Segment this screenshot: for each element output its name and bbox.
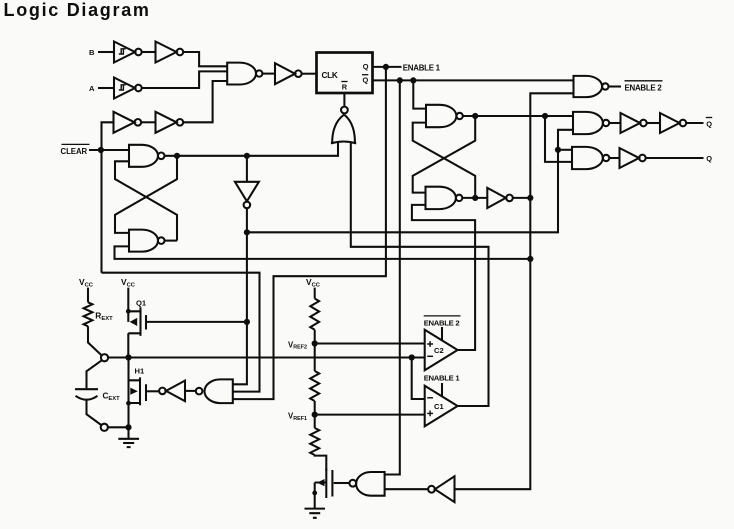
svg-text:ENABLE 2: ENABLE 2 <box>424 318 460 327</box>
node latch-A output junction <box>174 153 180 159</box>
pin C1 plus <box>427 411 433 417</box>
node timing junction at comparator column <box>409 354 415 360</box>
flip-flop U1 box <box>317 53 373 94</box>
wire A to trigger NAND input2 <box>142 71 228 88</box>
node latch-C output junction <box>472 113 478 119</box>
wire inverter input from pulldown NAND <box>185 390 196 392</box>
wire CLEAR input to latch <box>89 149 129 151</box>
wire ENABLE1/Q routed to pulldown NAND input3 <box>233 67 386 399</box>
inverter Qbar chain first <box>621 113 641 133</box>
transistor Q1 (PMOS) <box>128 288 146 358</box>
wire A input <box>98 87 114 89</box>
svg-text:Q: Q <box>363 76 369 85</box>
wire Qbar output bus <box>373 79 574 81</box>
wire latch-B lower input long feedback <box>115 246 531 259</box>
NAND Qbar output gate <box>573 112 603 134</box>
node down-inverter tap junction <box>244 153 250 159</box>
wire Cext bottom plate connection <box>87 400 102 425</box>
wire VCC to R1 <box>314 288 316 299</box>
wire latch-C output to Qbar-NAND <box>463 115 573 117</box>
wire latch-D output to inverter <box>462 197 487 199</box>
transistor H1 (NMOS) <box>129 358 147 428</box>
capacitor Cext <box>75 389 98 400</box>
pin C2 minus <box>427 355 433 357</box>
wire latch cross-coupling B-upper-input from latch-A output <box>115 156 177 233</box>
inverter after latch-D <box>487 188 506 208</box>
svg-text:A: A <box>89 84 95 93</box>
NAND latch-D bottom gate (right latch) <box>426 187 456 209</box>
wire latch-A output to NOR input <box>165 141 339 155</box>
wire latch-B output stub <box>165 240 178 242</box>
wire CLEAR vertical riser to inverter chain <box>102 122 114 272</box>
wire Q chain long to output label <box>646 157 704 159</box>
wire VREF1 to C1 plus input <box>315 414 425 416</box>
wire C1 output to NOR input <box>351 141 489 406</box>
node down-inverter output junction <box>244 229 250 235</box>
wire CLEAR chain stage2 <box>141 121 155 123</box>
wire timing node bus to comparators <box>108 356 425 358</box>
wire down-inverter output long vertical <box>233 156 247 384</box>
wire latch cross-coupling A-lower-input from latch-B output <box>115 161 177 240</box>
node x558 junction <box>555 147 561 153</box>
wire Q output to ENABLE 1 label <box>373 66 402 68</box>
wire VCC to Rext <box>87 288 89 303</box>
node y116 junction at x545 <box>542 113 548 119</box>
wire VREF2 to C2 plus input <box>315 342 425 344</box>
node VREF1 junction <box>312 412 318 418</box>
node x530 junction at y259 <box>527 256 533 262</box>
svg-text:Logic Diagram: Logic Diagram <box>4 0 151 20</box>
resistor Rext <box>84 302 93 326</box>
NAND latch-B bottom gate <box>129 230 158 252</box>
node Q1 gate tap junction <box>244 319 250 325</box>
comparator C1 <box>425 386 458 427</box>
wire discharge NAND input2 to inverter <box>385 488 428 490</box>
svg-text:ENABLE 1: ENABLE 1 <box>424 374 461 383</box>
wire Cext top plate connection <box>87 360 102 388</box>
wire B stage2 <box>142 51 156 53</box>
wire inverter output to x530 net <box>513 197 531 199</box>
wire H1 gate stub <box>147 390 160 392</box>
wire C2 enable stub <box>441 327 443 340</box>
wire discharge gate stub <box>334 482 350 484</box>
inverter B (second) <box>156 42 177 63</box>
wire CLEAR chain to trigger NAND input3 <box>183 81 227 122</box>
svg-text:Q: Q <box>706 120 712 129</box>
wire Q-NAND to inverter <box>609 157 619 159</box>
pin C2 plus <box>427 341 433 347</box>
inverter Q chain <box>620 148 640 168</box>
resistor divider R3 <box>310 428 319 455</box>
inverter H1 gate driver (points left) <box>159 388 166 395</box>
svg-text:Q: Q <box>706 154 712 163</box>
node Q junction <box>383 64 389 70</box>
inverter CLEAR chain second <box>156 112 177 133</box>
schmitt inverter A <box>114 78 135 99</box>
wire latch cross-coupling C-lower-input from latch-D output <box>413 123 476 198</box>
wire Rext to Rext/Cext pin <box>88 326 102 355</box>
NAND discharge driver (points left) <box>349 480 356 487</box>
wire Qbar to latch-C input1 <box>413 80 426 108</box>
trigger NAND gate (3-input) <box>227 63 256 85</box>
resistor divider R1 <box>310 299 319 330</box>
inverter pointing down (latch-A output) <box>235 182 259 202</box>
node CLEAR junction <box>98 147 104 153</box>
wire flip-flop Rbar stub <box>343 94 345 107</box>
inverter clock driver <box>275 63 295 84</box>
wire R2 to R3 <box>314 401 316 428</box>
svg-text:CLK: CLK <box>322 71 338 80</box>
wire B input <box>98 51 114 53</box>
wire y116 tap down to Q-NAND input2 <box>545 116 572 162</box>
wire Qbar long vertical to discharge NAND input1 <box>385 80 400 474</box>
node Qbar junction 1 <box>397 77 403 83</box>
NAND ENABLE2 output gate <box>574 76 603 97</box>
wire Qbar chain to output label <box>686 122 703 124</box>
wire Q1 gate to inverted-latch net <box>146 321 247 323</box>
svg-text:ENABLE 2: ENABLE 2 <box>625 84 663 93</box>
svg-text:ENABLE 1: ENABLE 1 <box>403 64 441 73</box>
wire Qbar-NAND to inverter1 <box>609 122 620 124</box>
svg-text:C2: C2 <box>434 346 444 355</box>
schmitt inverter B (first) <box>114 42 135 63</box>
NOR gate reset driver (points up) <box>341 107 348 114</box>
wire R1 to R2 <box>314 330 316 371</box>
ground (Cext/H1) <box>118 427 139 447</box>
wire C2 output to latch-D lower input <box>412 205 475 350</box>
node timing junction at Q1/H1 drain <box>125 354 131 360</box>
svg-text:Q1: Q1 <box>136 299 147 308</box>
svg-text:CLEAR: CLEAR <box>61 147 88 156</box>
pin Rext/Cext (open circle) <box>101 354 108 361</box>
wire trigger NAND to clock inverter <box>262 73 275 75</box>
node ground junction <box>125 424 131 430</box>
NAND Q output gate <box>572 147 603 169</box>
ground (discharge transistor) <box>305 509 326 518</box>
node x530 junction at inverter <box>527 195 533 201</box>
NAND latch-C top gate (right latch) <box>426 105 456 127</box>
wire B to trigger NAND input1 <box>183 52 227 66</box>
node VREF2 junction <box>312 340 318 346</box>
svg-text:C1: C1 <box>434 402 444 411</box>
wire ENABLE2 NAND output <box>609 85 622 87</box>
pin C1 minus <box>427 397 433 399</box>
wire x530 long net ENABLE2-NAND to bottom inverter <box>455 93 574 489</box>
NAND pulldown driver (points left, 3-input) <box>196 388 203 395</box>
pin Cext (open circle) <box>101 424 108 431</box>
wire C1 enable stub <box>441 383 443 396</box>
resistor divider R2 <box>310 371 319 401</box>
wire latch cross-coupling D-upper-input from latch-C output <box>413 116 476 193</box>
wire clock inverter to flip-flop CLK <box>302 73 316 75</box>
wire Cext pin to ground <box>108 426 129 428</box>
inverter CLEAR chain first <box>114 112 135 133</box>
inverter Qbar chain second <box>660 113 680 133</box>
wire CLEAR routed to pulldown NAND input2 <box>102 273 260 392</box>
svg-text:H1: H1 <box>135 367 145 376</box>
wire mid bus to QQbar gates <box>247 130 573 233</box>
comparator C2 <box>425 330 458 371</box>
svg-text:Q: Q <box>363 62 369 71</box>
NAND latch-A top gate <box>129 145 158 167</box>
svg-text:R: R <box>342 82 348 91</box>
svg-text:B: B <box>89 48 95 57</box>
wire Qbar chain stage2 <box>647 122 660 124</box>
inverter discharge feedback (points left) <box>428 486 435 493</box>
wire R3 to discharge transistor drain <box>315 455 327 471</box>
wire x558 tap to Q-NAND input1 <box>558 149 572 151</box>
node latch-D output junction <box>472 195 478 201</box>
wire timing node to C1 minus input <box>412 358 425 400</box>
transistor discharge (NMOS) <box>315 469 333 509</box>
node Qbar junction 2 <box>410 77 416 83</box>
